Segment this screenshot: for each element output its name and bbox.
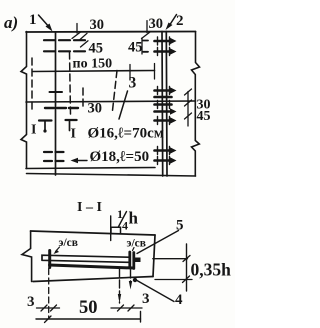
weld row cross ticks: [158, 37, 170, 165]
45 dim right vertical: [141, 38, 143, 54]
weld dash on bar1 y92: [50, 91, 63, 93]
svg-text:30: 30: [90, 17, 105, 33]
dashed vertical bar x67: [70, 52, 71, 115]
weld dot: [133, 278, 137, 282]
lower bar: [50, 265, 134, 268]
upper splice bar: [42, 255, 129, 262]
svg-text:а): а): [4, 13, 18, 32]
beam top edge: [31, 231, 156, 235]
svg-text:3: 3: [129, 75, 137, 92]
dashed vertical bar x83: [82, 88, 84, 110]
svg-text:Ø16,ℓ=70см: Ø16,ℓ=70см: [88, 126, 164, 142]
needle bar left dashed: [48, 269, 50, 319]
dashed splice bar row 2: [44, 50, 85, 52]
svg-text:45: 45: [128, 40, 143, 56]
double bars 2: [161, 32, 164, 177]
svg-text:3: 3: [27, 294, 35, 310]
dashed vertical bar x32: [31, 58, 33, 110]
needle bar right B: [130, 270, 132, 284]
beam bottom edge: [33, 277, 153, 282]
stirrup notch: [111, 227, 121, 233]
dim tick x147: [146, 21, 148, 33]
vertical bar 1: [55, 32, 57, 175]
weld row arrowheads: [170, 38, 177, 164]
dim 0,35h: [153, 258, 188, 260]
svg-text:h: h: [129, 209, 139, 228]
arrow of 018 label: [74, 160, 87, 162]
quarter-h tick: [110, 216, 112, 241]
mesh right edge with break marks: [192, 32, 200, 177]
dashed splice bar row 1: [44, 39, 85, 41]
bold dashed row y108: [45, 107, 80, 109]
mesh bottom edge B: [27, 174, 196, 177]
45 left tick slashes: [80, 33, 87, 39]
svg-text:0,35h: 0,35h: [191, 260, 232, 280]
svg-text:э/св: э/св: [59, 237, 78, 249]
section stroke left: [39, 119, 52, 121]
svg-text:2: 2: [176, 13, 184, 29]
svg-text:4: 4: [175, 292, 183, 308]
beam right edge: [153, 235, 155, 277]
mesh top edge: [26, 31, 196, 34]
svg-text:по 150: по 150: [73, 57, 113, 72]
tick x130 on bar y71: [129, 65, 131, 81]
dim tick x77: [76, 24, 78, 34]
beam left break edge: [22, 231, 32, 282]
svg-text:30: 30: [88, 101, 103, 117]
dashed vertical bar x113: [113, 71, 118, 111]
svg-text:I – I: I – I: [77, 200, 102, 215]
svg-text:30: 30: [149, 16, 164, 32]
section stroke right: [66, 119, 77, 121]
svg-text:1: 1: [29, 12, 37, 28]
bottom dashed splice rows: [44, 151, 66, 153]
svg-text:50: 50: [79, 298, 98, 318]
svg-text:3: 3: [142, 291, 150, 307]
svg-text:I: I: [31, 123, 36, 138]
mesh bottom edge A: [26, 168, 155, 169]
svg-text:45: 45: [89, 41, 104, 57]
svg-text:45: 45: [197, 109, 211, 124]
bar stub right: [135, 258, 141, 263]
mesh left edge with break marks: [21, 32, 27, 169]
horizontal bar y101.5: [26, 101, 196, 102]
svg-text:Ø18,ℓ=50: Ø18,ℓ=50: [90, 149, 150, 165]
svg-text:4: 4: [122, 219, 128, 233]
dim 50: [36, 318, 141, 320]
end tick x154.5: [154, 64, 156, 80]
leader 4: [137, 281, 174, 302]
weld plates right: [128, 252, 131, 268]
svg-text:э/св: э/св: [127, 238, 146, 250]
horizontal bar y71: [33, 71, 155, 72]
right dim line 30/45: [187, 92, 189, 127]
svg-text:I: I: [71, 127, 76, 142]
weld rows on double bars: [155, 41, 172, 161]
weld plate left: [48, 251, 51, 268]
needle bar right A: [119, 269, 121, 303]
